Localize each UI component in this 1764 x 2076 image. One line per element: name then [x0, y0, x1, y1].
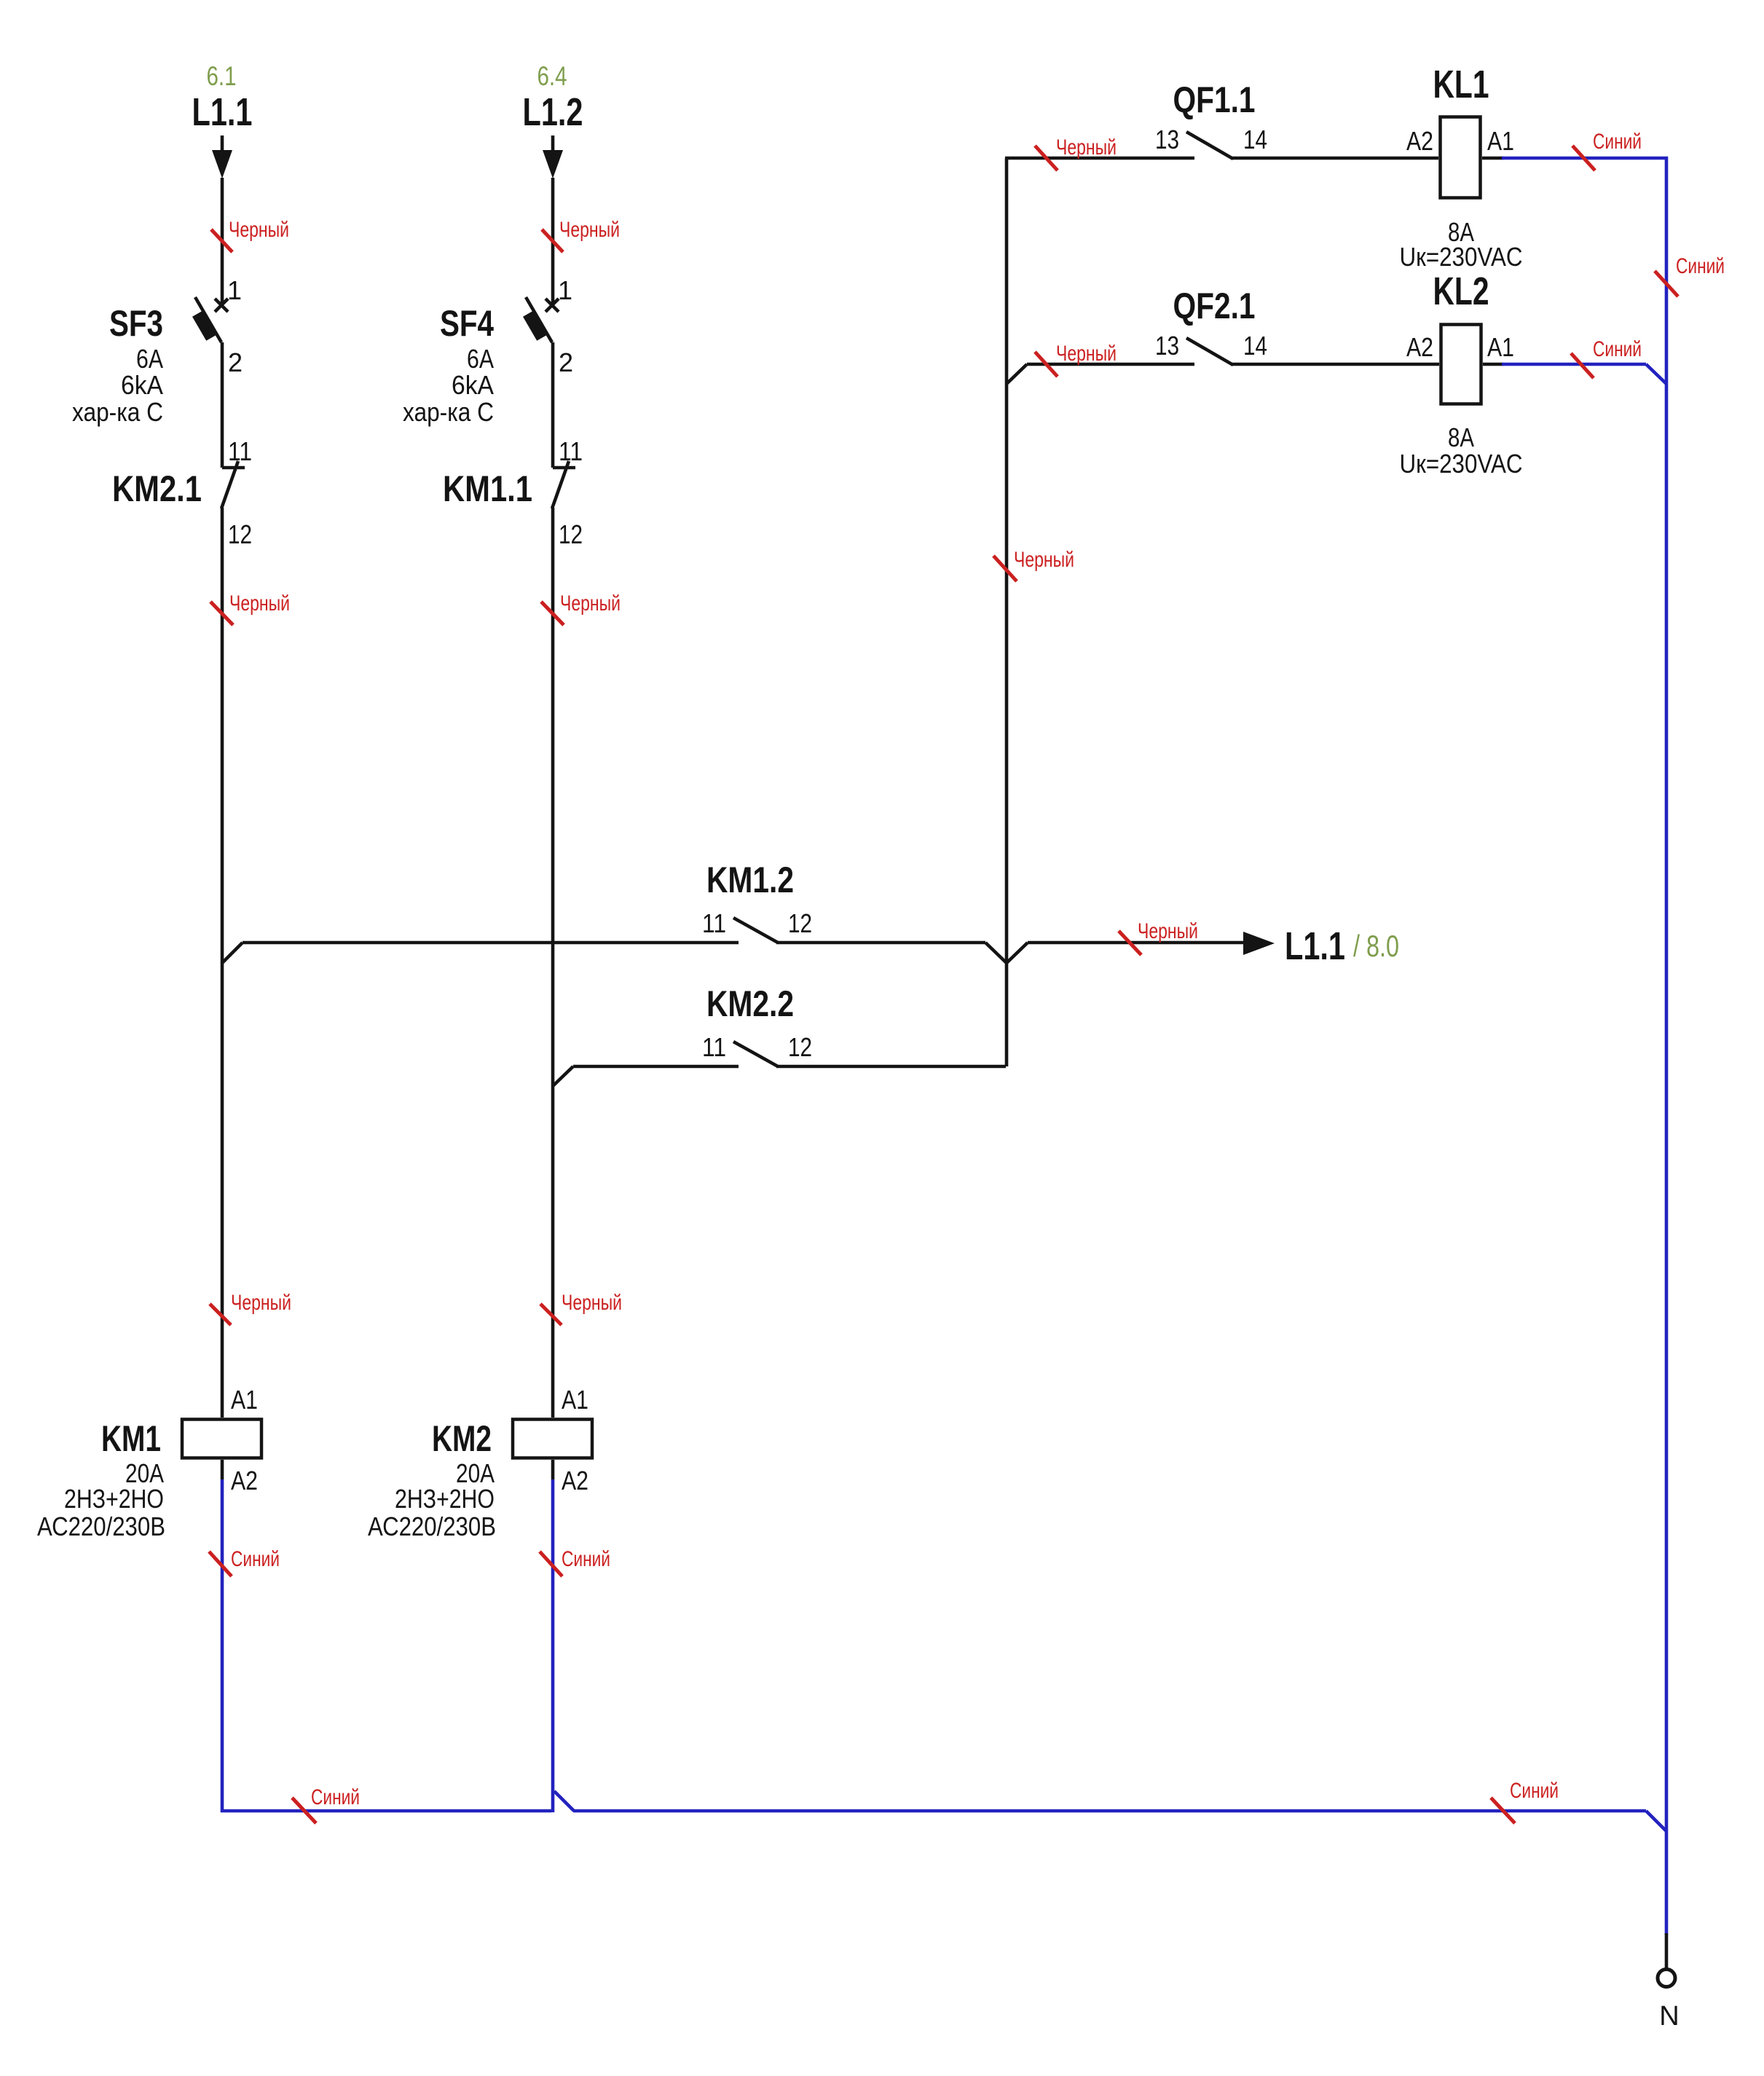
svg-text:KL1: KL1 [1433, 63, 1489, 106]
wire blue jog KM2 A2 into bottom bus [554, 1791, 574, 1811]
wire KM2 coil bottom stub [551, 1460, 555, 1479]
wire jog col1 to KM1.2 branch [222, 943, 243, 963]
wire color slash Синий (bottom bus right) [1491, 1798, 1515, 1823]
svg-text:11: 11 [702, 908, 726, 938]
svg-text:L1.2: L1.2 [523, 90, 583, 134]
svg-text:A2: A2 [1406, 332, 1433, 362]
wire QF2.1 row right [1232, 363, 1439, 366]
svg-text:12: 12 [228, 519, 252, 549]
svg-text:13: 13 [1155, 331, 1179, 361]
svg-text:6kA: 6kA [452, 370, 494, 400]
svg-text:/ 8.0: / 8.0 [1353, 929, 1399, 963]
wire jog QF vertical to QF2.1 row [1007, 364, 1027, 384]
wire QF2.1 row left [1027, 363, 1194, 366]
relay coil KL1 [1441, 117, 1481, 198]
svg-text:A2: A2 [1406, 126, 1433, 156]
svg-text:Синий: Синий [562, 1547, 610, 1571]
wire QF1.1 row right [1232, 157, 1438, 160]
svg-text:2НЗ+2НО: 2НЗ+2НО [64, 1484, 164, 1514]
svg-text:12: 12 [788, 908, 812, 938]
breaker SF3 blade [195, 297, 221, 342]
wire SF3 to KM2.1 [221, 342, 224, 468]
wire blue KL2 A1 right [1502, 363, 1646, 366]
incoming arrow L1.1 [212, 150, 232, 178]
svg-text:KL2: KL2 [1433, 270, 1489, 313]
wire blue KM1 A2 down [221, 1479, 224, 1812]
contactor coil KM1 [182, 1420, 261, 1458]
svg-text:A2: A2 [231, 1466, 258, 1495]
svg-text:6.4: 6.4 [538, 61, 567, 91]
wire color slash Синий (below KM1) [209, 1552, 232, 1576]
incoming arrow L1.2 [543, 150, 563, 178]
contactor coil KM2 [513, 1420, 592, 1458]
wire KM1.1 down to KM2 coil [551, 508, 555, 1418]
svg-text:АС220/230В: АС220/230В [368, 1511, 496, 1541]
breaker SF3 thermal element (filled) [192, 310, 217, 341]
svg-text:N: N [1659, 2001, 1679, 2032]
wire blue bottom bus right segment [573, 1809, 1646, 1813]
wire stub above L1.2 arrow [551, 135, 555, 151]
contact QF2.1 blade (NO) [1186, 338, 1233, 365]
svg-text:Синий: Синий [311, 1785, 360, 1809]
wire KM1.2 row right [776, 941, 985, 945]
svg-text:Черный: Черный [559, 218, 620, 242]
svg-text:QF1.1: QF1.1 [1173, 79, 1256, 120]
svg-text:11: 11 [228, 436, 252, 466]
relay coil KL2 [1441, 325, 1481, 404]
wire color slash Синий (KL1 row) [1572, 146, 1595, 170]
wire color slash Черный (col2 mid) [541, 602, 564, 625]
breaker SF4 thermal element (filled) [523, 310, 548, 341]
wire V-jog left into QF vertical [985, 943, 1007, 963]
wire QF feeder vertical [1005, 158, 1009, 1066]
svg-text:Uк=230VAC: Uк=230VAC [1400, 242, 1523, 272]
svg-text:Черный: Черный [229, 218, 289, 242]
wire color slash Синий (KL2 row) [1571, 353, 1594, 378]
svg-text:Uк=230VAC: Uк=230VAC [1400, 449, 1523, 479]
wire jog col2 to KM2.2 branch [553, 1066, 573, 1086]
svg-text:12: 12 [788, 1032, 812, 1062]
wire color slash Черный (QF vertical) [993, 556, 1017, 581]
contact KM2.2 blade (NO) [733, 1042, 778, 1066]
wire color slash Черный (arrow row) [1119, 931, 1141, 955]
svg-text:12: 12 [559, 519, 583, 549]
svg-text:Черный: Черный [1056, 342, 1117, 366]
svg-text:8A: 8A [1448, 422, 1474, 452]
svg-text:13: 13 [1155, 125, 1179, 154]
svg-text:Черный: Черный [1138, 919, 1198, 943]
wire color slash Черный (above KM2 coil) [540, 1304, 562, 1325]
wire color slash Синий (N bus upper) [1655, 271, 1678, 296]
wire V-jog right from QF vertical [1007, 943, 1028, 963]
contact KM1.1 blade (NC) [552, 461, 569, 508]
breaker SF3 X terminal [215, 299, 228, 312]
wire color slash Черный (L1.1 top) [211, 229, 232, 252]
svg-text:Черный: Черный [560, 591, 621, 616]
svg-text:АС220/230В: АС220/230В [37, 1511, 165, 1541]
wire KM1.2 row left [243, 941, 739, 945]
contact KM2.1 terminal tick [222, 466, 245, 470]
svg-text:A1: A1 [231, 1385, 258, 1415]
wire L1.2 arrow to SF4 [551, 178, 555, 305]
wire color slash Синий (below KM2) [540, 1552, 562, 1576]
svg-text:14: 14 [1243, 125, 1267, 154]
contact QF1.1 blade (NO) [1186, 132, 1233, 159]
wire SF4 to KM1.1 [551, 342, 555, 468]
svg-text:хар-ка С: хар-ка С [72, 397, 163, 427]
wire color slash Синий (bottom bus left) [292, 1798, 316, 1823]
wire blue N bus vertical right [1665, 157, 1669, 1935]
svg-text:Черный: Черный [1014, 548, 1074, 572]
svg-text:Черный: Черный [1056, 135, 1117, 160]
svg-text:2: 2 [228, 347, 243, 377]
svg-text:SF4: SF4 [440, 303, 494, 344]
breaker SF4 X terminal [546, 299, 559, 312]
svg-text:1: 1 [558, 275, 572, 305]
svg-text:Синий: Синий [1676, 254, 1725, 278]
svg-text:A1: A1 [1487, 126, 1514, 156]
wire KL1 A1 stub black [1482, 157, 1503, 160]
svg-text:6A: 6A [467, 344, 494, 374]
svg-text:KM2: KM2 [432, 1418, 492, 1459]
wire blue bottom bus left segment [221, 1809, 551, 1813]
svg-text:KM2.2: KM2.2 [706, 983, 794, 1024]
svg-text:Синий: Синий [1593, 130, 1642, 154]
svg-text:14: 14 [1243, 331, 1267, 361]
breaker SF4 blade [526, 297, 552, 342]
wire KL2 A1 stub black [1483, 363, 1503, 366]
wire KM2.2 row left [573, 1065, 739, 1069]
svg-text:KM1.1: KM1.1 [443, 468, 532, 509]
contact KM1.2 blade (NO) [733, 918, 778, 943]
wire KM2.2 row right [776, 1065, 1006, 1069]
svg-text:Синий: Синий [231, 1547, 280, 1571]
svg-text:Черный: Черный [231, 1291, 291, 1315]
wire blue jog KL2 to N bus [1646, 364, 1666, 384]
svg-text:11: 11 [702, 1032, 726, 1062]
wire blue KL1 A1 to N bus [1502, 157, 1668, 160]
wire color slash Черный (QF2.1 row) [1035, 352, 1058, 377]
contact KM2.1 blade (NC) [221, 461, 238, 508]
svg-text:A2: A2 [562, 1466, 588, 1495]
svg-text:2: 2 [559, 347, 573, 377]
svg-text:KM1: KM1 [101, 1418, 161, 1459]
wire color slash Черный (QF1.1 row) [1035, 146, 1058, 170]
svg-text:SF3: SF3 [109, 303, 163, 344]
wire color slash Черный (col1 mid) [210, 602, 233, 625]
wire stub above L1.1 arrow [221, 135, 224, 151]
outgoing arrow head [1243, 932, 1275, 955]
wire black stub above N terminal [1665, 1933, 1669, 1969]
svg-text:Черный: Черный [229, 591, 290, 616]
svg-text:6kA: 6kA [121, 370, 163, 400]
svg-text:QF2.1: QF2.1 [1173, 286, 1256, 326]
svg-text:Синий: Синий [1510, 1779, 1559, 1803]
svg-text:Черный: Черный [562, 1291, 622, 1315]
svg-text:A1: A1 [562, 1385, 588, 1415]
contact KM1.1 terminal tick [553, 466, 575, 470]
wire KM2.1 down to KM1 coil [221, 508, 224, 1418]
wire L1.1 arrow to SF3 [221, 178, 224, 305]
svg-text:11: 11 [559, 436, 583, 466]
svg-text:Синий: Синий [1593, 337, 1642, 361]
wire blue KM2 A2 down [551, 1479, 555, 1812]
terminal N circle [1658, 1970, 1675, 1987]
svg-text:KM1.2: KM1.2 [706, 860, 794, 900]
svg-text:6.1: 6.1 [207, 61, 237, 91]
wire KM1 coil bottom stub [221, 1460, 224, 1479]
wire color slash Черный (above KM1 coil) [210, 1304, 231, 1325]
svg-text:L1.1: L1.1 [1285, 924, 1345, 968]
svg-text:хар-ка С: хар-ка С [403, 397, 494, 427]
svg-text:A1: A1 [1487, 332, 1514, 362]
wire color slash Черный (L1.2 top) [542, 229, 563, 252]
svg-text:KM2.1: KM2.1 [112, 468, 202, 509]
svg-text:2НЗ+2НО: 2НЗ+2НО [395, 1484, 495, 1514]
svg-text:6A: 6A [136, 344, 163, 374]
svg-text:1: 1 [227, 275, 242, 305]
wire QF1.1 row left [1005, 157, 1194, 160]
svg-text:L1.1: L1.1 [192, 90, 253, 134]
wire blue jog bottom bus to N vertical [1646, 1811, 1666, 1831]
wire KM1.2 row to outgoing arrow [1028, 941, 1245, 945]
